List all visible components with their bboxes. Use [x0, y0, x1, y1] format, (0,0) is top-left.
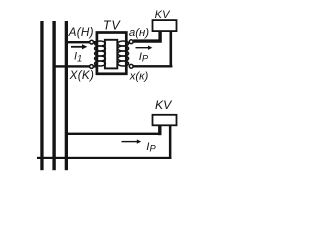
KV2 right lead: [169, 126, 172, 159]
wire stub terminal A to TV box: [93, 41, 97, 43]
secondary winding (right coil rings): [118, 41, 129, 66]
svg-text:KV: KV: [155, 9, 172, 21]
svg-text:x(к): x(к): [129, 71, 149, 83]
terminal A: [90, 40, 94, 44]
svg-text:KV: KV: [155, 98, 173, 112]
terminal a: [129, 40, 133, 44]
current arrow IP top: [136, 46, 153, 50]
terminal X: [90, 65, 94, 69]
current arrow I1: [71, 44, 87, 49]
wire bar1 to KV2 right lead (return): [37, 157, 171, 159]
KV2 left lead: [158, 126, 161, 135]
wire terminal x to KV1 right lead: [133, 65, 172, 67]
bus bar L3: [65, 21, 68, 170]
transformer TV outer box: [97, 33, 126, 74]
wire stub terminal X to TV box: [93, 65, 97, 67]
primary winding (left coil rings): [95, 41, 106, 66]
svg-text:a(н): a(н): [129, 27, 149, 39]
voltmeter KV2 box: [153, 115, 177, 126]
bus bar L1: [40, 21, 43, 170]
voltmeter KV1 box: [153, 20, 177, 31]
wire bar2 to terminal X: [53, 65, 90, 67]
wire bar3 to terminal A: [65, 41, 90, 43]
transformer TV core (inner rectangle): [105, 40, 117, 69]
current arrow IP bottom: [122, 139, 142, 143]
svg-text:X(K): X(K): [69, 69, 95, 82]
terminal x: [129, 64, 133, 68]
svg-text:I1: I1: [74, 51, 82, 64]
wire terminal a to KV1 left lead: [133, 32, 162, 43]
svg-text:A(H): A(H): [68, 26, 94, 39]
KV1 right lead: [170, 32, 173, 66]
svg-text:IP: IP: [146, 141, 156, 154]
bus bar L2: [52, 21, 55, 170]
svg-text:IP: IP: [139, 51, 149, 64]
wire bar3 to KV2 left lead: [65, 133, 162, 135]
svg-text:TV: TV: [103, 18, 121, 32]
